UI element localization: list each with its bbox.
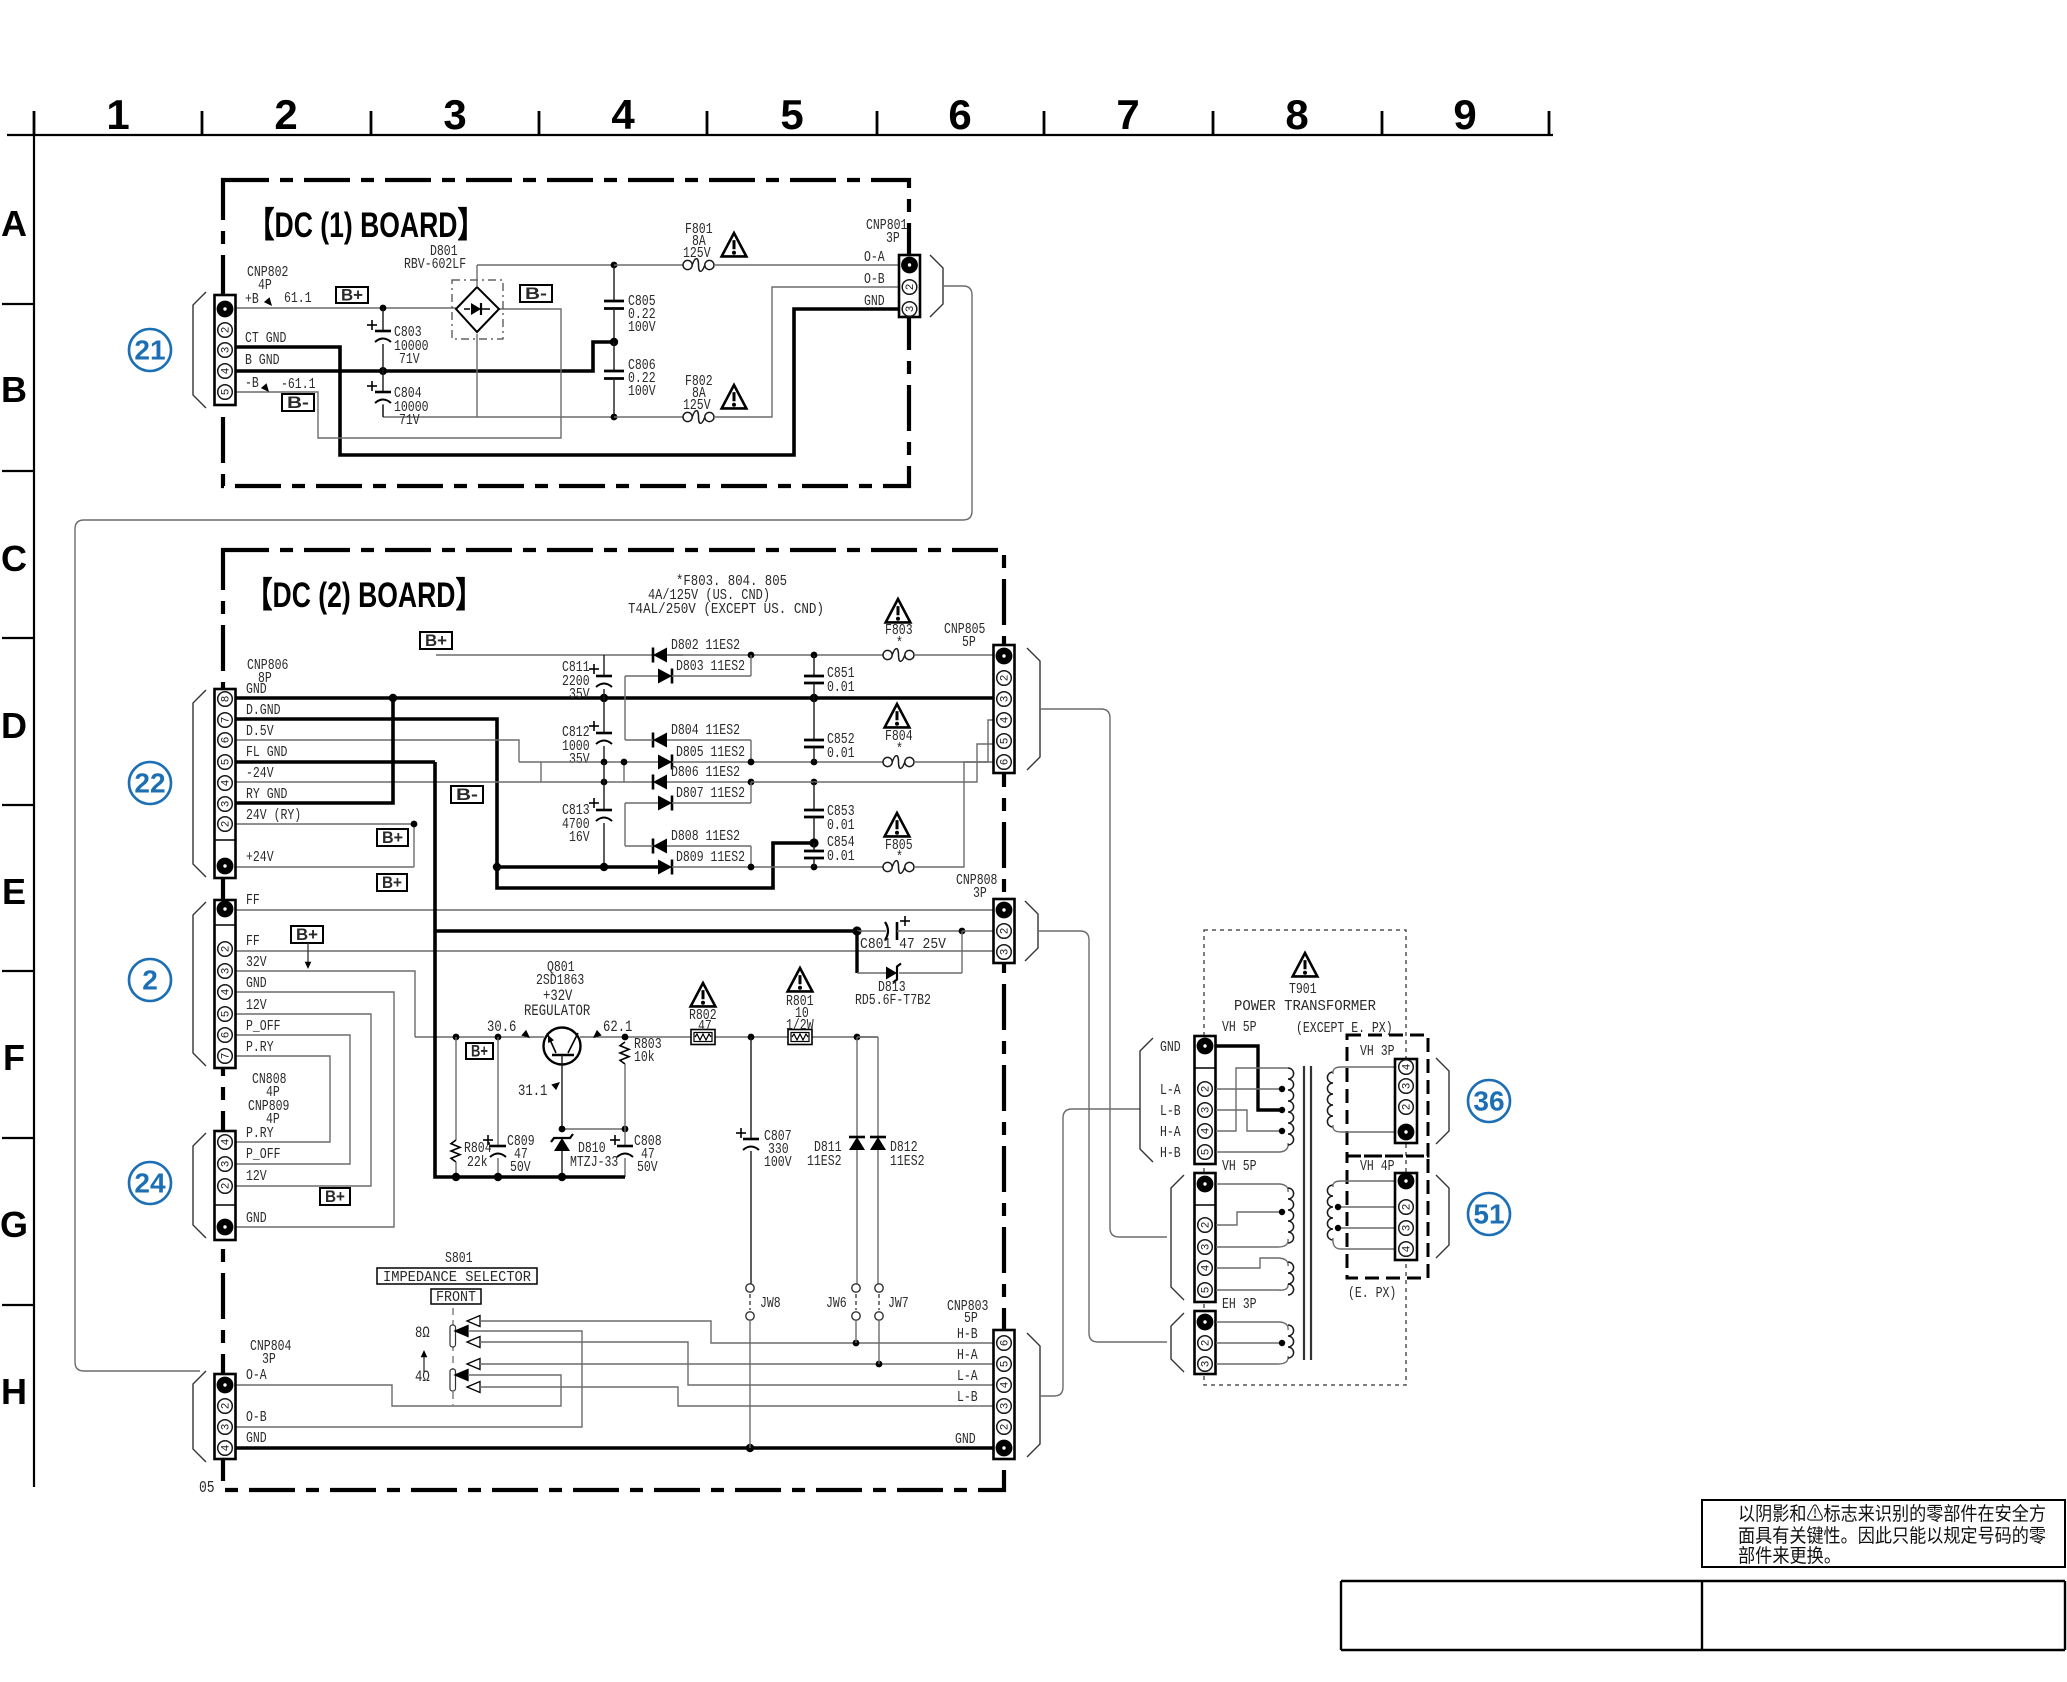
svg-text:2: 2 <box>1000 1424 1012 1431</box>
warning triangle F804 <box>885 704 910 727</box>
connector EH3P <box>1195 1311 1216 1374</box>
svg-text:*: * <box>896 849 903 866</box>
wire 24V (RY) <box>236 824 414 867</box>
svg-text:B GND: B GND <box>245 352 280 369</box>
junction B- rail <box>493 863 501 871</box>
wire GND bottom bus <box>236 1446 994 1450</box>
svg-text:2: 2 <box>221 1183 233 1190</box>
svg-text:P.RY: P.RY <box>246 1039 274 1056</box>
capacitor C804 <box>367 371 429 429</box>
diode D803 <box>625 655 751 740</box>
svg-text:B+: B+ <box>341 286 363 305</box>
brace CNP803 <box>1027 1333 1040 1457</box>
capacitor C805 <box>604 265 656 342</box>
svg-text:50V: 50V <box>510 1159 531 1176</box>
svg-text:125V: 125V <box>683 245 711 262</box>
wire CNP801 to CNP804 route <box>75 286 972 1371</box>
connector CNP808 <box>994 899 1015 963</box>
row ruler <box>0 135 34 1487</box>
svg-text:E: E <box>2 871 26 912</box>
svg-text:C: C <box>1 538 27 579</box>
svg-text:H-B: H-B <box>1160 1145 1181 1162</box>
contact H-B (top) <box>467 1316 994 1344</box>
svg-text:4: 4 <box>611 91 635 138</box>
svg-text:6: 6 <box>1000 759 1012 766</box>
junction C801 left <box>852 926 861 935</box>
svg-text:3: 3 <box>1000 1403 1012 1410</box>
brace VH4P <box>1436 1175 1449 1258</box>
brace CNP805 <box>1027 648 1040 770</box>
title block table <box>1341 1581 2065 1650</box>
wire CNP803 to VH5P-1 <box>1040 1109 1140 1396</box>
svg-text:61.1: 61.1 <box>284 290 312 307</box>
column ruler <box>7 91 1553 138</box>
contact H-A (upper 4ohm) <box>467 1359 994 1370</box>
svg-text:-24V: -24V <box>246 765 274 782</box>
junction rail/R803 <box>622 1034 629 1041</box>
svg-text:D: D <box>1 705 27 746</box>
primary winding upper <box>1288 1068 1294 1145</box>
warning triangle F805 <box>885 813 910 836</box>
wire VH4P pin4 <box>1333 1238 1395 1249</box>
svg-text:VH 3P: VH 3P <box>1360 1043 1395 1060</box>
connector CNP809 lower <box>215 1131 236 1240</box>
svg-text:D808 11ES2: D808 11ES2 <box>671 828 740 845</box>
svg-text:11ES2: 11ES2 <box>807 1153 842 1170</box>
wire VH4P pin2 tap <box>1337 1206 1395 1208</box>
svg-text:125V: 125V <box>683 397 711 414</box>
wire secondary top to pin4 <box>1333 1067 1395 1074</box>
svg-text:36: 36 <box>1473 1086 1504 1117</box>
wire VH5P-2 pin1 <box>1216 1184 1288 1192</box>
junction D802/D803 <box>748 652 755 659</box>
junction GND/C851 <box>810 694 818 702</box>
svg-text:VH 5P: VH 5P <box>1222 1158 1257 1175</box>
svg-text:3P: 3P <box>886 230 900 247</box>
svg-text:2: 2 <box>142 965 158 996</box>
voltage 31.1 <box>518 1082 560 1100</box>
diode D805 <box>658 744 883 770</box>
wire D.GND <box>236 719 810 888</box>
contact 8ohm common <box>236 1326 582 1428</box>
brace CNP806 <box>193 690 206 877</box>
ref 22 <box>129 762 171 804</box>
resistor R804 <box>451 1037 492 1177</box>
switch S801 labels <box>377 1250 537 1306</box>
wire row782 to pin5 <box>751 744 994 782</box>
svg-text:C801 47 25V: C801 47 25V <box>860 936 946 953</box>
svg-text:2: 2 <box>1000 675 1012 682</box>
svg-text:4: 4 <box>1201 1264 1213 1271</box>
transistor Q801 <box>524 959 590 1065</box>
capacitor C801 <box>857 916 962 953</box>
svg-text:D804 11ES2: D804 11ES2 <box>671 722 740 739</box>
wire GND to primary <box>1216 1046 1281 1110</box>
ref 51 <box>1468 1193 1510 1235</box>
zener D810 <box>551 1134 618 1177</box>
label CNP802 <box>245 264 288 392</box>
junction primary L-A tap <box>1279 1086 1285 1092</box>
capacitor C813 <box>562 762 612 867</box>
brace EH3P <box>1171 1313 1184 1372</box>
svg-text:05: 05 <box>199 1479 215 1498</box>
svg-text:L-B: L-B <box>957 1389 978 1406</box>
svg-text:2: 2 <box>1402 1204 1414 1211</box>
svg-text:RD5.6F-T7B2: RD5.6F-T7B2 <box>855 992 931 1009</box>
wire D802 row to fuse <box>667 654 883 656</box>
svg-text:部件来更换。: 部件来更换。 <box>1738 1545 1841 1567</box>
svg-text:71V: 71V <box>399 412 420 429</box>
wire VH5P-2 pin2 tap <box>1216 1212 1282 1225</box>
svg-text:6: 6 <box>948 91 971 138</box>
svg-text:8: 8 <box>221 696 233 703</box>
svg-text:16V: 16V <box>569 829 590 846</box>
junction row762/D806 tie <box>621 759 628 766</box>
svg-text:CT GND: CT GND <box>245 330 286 347</box>
contact L-B (bottom) <box>467 1382 994 1407</box>
svg-text:8Ω: 8Ω <box>415 1324 430 1342</box>
svg-text:5P: 5P <box>964 1310 978 1327</box>
label B+ top rail <box>420 631 452 650</box>
junction row762/D804 <box>748 759 755 766</box>
connector CNP803 <box>994 1330 1015 1459</box>
fuse F803 <box>883 622 994 661</box>
svg-text:以阴影和⚠标志来识别的零部件在安全方: 以阴影和⚠标志来识别的零部件在安全方 <box>1738 1503 2046 1525</box>
svg-text:62.1: 62.1 <box>603 1018 632 1036</box>
warning triangle F802 <box>722 385 747 408</box>
svg-text:1/2W: 1/2W <box>786 1017 814 1034</box>
wire GND nested <box>236 992 394 1227</box>
voltage 61.1 <box>264 290 312 307</box>
wire Q801 base <box>562 1055 625 1129</box>
svg-text:RBV-602LF: RBV-602LF <box>404 256 466 273</box>
label B+ (DC1) <box>336 286 368 305</box>
diode D812 <box>857 1037 925 1286</box>
svg-text:D807 11ES2: D807 11ES2 <box>676 785 745 802</box>
brace CNP804 <box>193 1371 206 1462</box>
label T901 <box>1234 981 1393 1037</box>
svg-text:H-A: H-A <box>957 1347 978 1364</box>
svg-text:B-: B- <box>525 284 547 303</box>
ref 36 <box>1468 1080 1510 1122</box>
svg-text:2: 2 <box>274 91 297 138</box>
svg-text:32V: 32V <box>246 954 267 971</box>
svg-text:-B: -B <box>245 375 259 392</box>
svg-text:3: 3 <box>221 1161 233 1168</box>
fuse F801 <box>614 221 899 271</box>
wire 12V nested <box>236 1014 371 1186</box>
brace CNP809 upper <box>193 902 206 1066</box>
junction rail/R804 bottom <box>452 1173 460 1181</box>
svg-text:2: 2 <box>221 327 233 334</box>
safety note box <box>1702 1500 2065 1567</box>
junction GND/C811-C812 <box>600 694 608 702</box>
capacitor C852 <box>804 698 855 762</box>
wire -24V row (782) <box>541 781 751 783</box>
DC (1) board border <box>223 180 909 486</box>
jumper JW6 <box>826 1284 860 1343</box>
svg-text:P_OFF: P_OFF <box>246 1018 281 1035</box>
svg-text:GND: GND <box>246 681 267 698</box>
svg-text:EH 3P: EH 3P <box>1222 1296 1257 1313</box>
junction C801 right <box>959 928 966 935</box>
diode D806 <box>653 764 740 790</box>
zener D813 <box>855 931 962 1009</box>
junction row762/C812 <box>601 759 608 766</box>
voltage 30.6 <box>487 1018 530 1038</box>
svg-text:2: 2 <box>221 821 233 828</box>
svg-text:T4AL/250V (EXCEPT US. CND): T4AL/250V (EXCEPT US. CND) <box>628 601 824 618</box>
wire B+ rail (row 655) <box>436 654 683 656</box>
label CNP805 <box>944 621 985 651</box>
wire P_OFF nested <box>236 1035 350 1164</box>
junction 24V(RY) <box>411 821 418 828</box>
bridge rectifier D801 <box>404 243 503 339</box>
svg-text:4: 4 <box>221 1444 233 1451</box>
wire CNP805 to VH5P-2 <box>1040 709 1167 1237</box>
junction rail/C807 <box>748 1034 755 1041</box>
svg-text:2: 2 <box>1402 1104 1414 1111</box>
wire B- bottom <box>383 334 614 417</box>
wire -B <box>236 309 561 438</box>
connector VH4P <box>1395 1173 1417 1260</box>
junction B GND/C805-C806 <box>610 338 618 346</box>
svg-text:100V: 100V <box>628 383 656 400</box>
wire C801 to CNP808 <box>962 930 994 932</box>
wire FL GND <box>236 760 435 764</box>
ref 2 <box>129 959 171 1001</box>
svg-text:24V (RY): 24V (RY) <box>246 807 301 824</box>
svg-text:2: 2 <box>1201 1340 1213 1347</box>
capacitor C803 <box>367 308 429 371</box>
warning triangle R802 <box>691 983 716 1006</box>
svg-text:2: 2 <box>1000 928 1012 935</box>
junction rail/D810 bottom <box>558 1173 566 1181</box>
connector CNP809 upper <box>215 900 236 1068</box>
wire B GND <box>236 342 612 371</box>
label B- near CNP802 <box>282 393 314 412</box>
svg-text:100V: 100V <box>628 319 656 336</box>
junction winding2 tap <box>1279 1209 1285 1215</box>
svg-text:L-A: L-A <box>957 1368 978 1385</box>
svg-text:GND: GND <box>246 1430 267 1447</box>
svg-text:GND: GND <box>864 293 885 310</box>
svg-text:4: 4 <box>221 779 233 786</box>
wire CNP808 to EH3P <box>1038 931 1167 1342</box>
capacitor C807 <box>736 1037 792 1286</box>
svg-text:3: 3 <box>221 968 233 975</box>
junction row867/C854 <box>811 864 818 871</box>
junction GND/RY GND <box>389 694 397 702</box>
svg-text:F: F <box>3 1037 25 1078</box>
capacitor C808 <box>610 1129 662 1177</box>
svg-text:G: G <box>0 1204 28 1245</box>
junction B GND/C803-C804 <box>379 367 387 375</box>
label CNP804 <box>246 1338 291 1447</box>
junction C853/C854 B- feed <box>809 838 818 847</box>
junction sec tap 1 <box>1335 1204 1341 1210</box>
svg-text:【DC (1) BOARD】: 【DC (1) BOARD】 <box>248 206 484 245</box>
svg-text:51: 51 <box>1473 1199 1504 1230</box>
svg-text:9: 9 <box>1453 91 1476 138</box>
svg-text:【DC (2) BOARD】: 【DC (2) BOARD】 <box>246 576 482 615</box>
svg-text:D.GND: D.GND <box>246 702 281 719</box>
svg-text:3: 3 <box>1201 1361 1213 1368</box>
capacitor C851 <box>804 655 855 698</box>
junction C806 bottom <box>611 414 618 421</box>
wire L-B jog <box>0 0 1 1</box>
wire secondary bottom to pin1 <box>1333 1125 1395 1132</box>
junction primary GND tap <box>1279 1107 1285 1113</box>
svg-text:31.1: 31.1 <box>518 1082 547 1100</box>
label B+ below 24V <box>377 873 407 892</box>
junction row782/C853 <box>811 779 818 786</box>
svg-text:FF: FF <box>246 892 260 909</box>
wire L-B tap <box>1216 1110 1282 1131</box>
svg-text:21: 21 <box>134 335 165 366</box>
contact 4ohm common <box>236 1370 561 1407</box>
svg-text:8: 8 <box>1285 91 1308 138</box>
svg-text:B-: B- <box>287 393 309 412</box>
junction row762/C852 <box>811 759 818 766</box>
wire 32V rail <box>415 1036 878 1038</box>
svg-text:P.RY: P.RY <box>246 1125 274 1142</box>
svg-text:0.01: 0.01 <box>827 745 855 762</box>
switch pole bar lower <box>450 1369 456 1391</box>
svg-text:3: 3 <box>1000 949 1012 956</box>
wire FL GND to C801 <box>435 929 857 933</box>
jumper JW7 <box>875 1284 909 1364</box>
svg-text:35V: 35V <box>569 686 590 703</box>
junction row782/C813 <box>601 779 608 786</box>
svg-text:GND: GND <box>246 975 267 992</box>
svg-text:JW7: JW7 <box>888 1295 909 1312</box>
svg-text:FRONT: FRONT <box>436 1289 476 1306</box>
junction D808/D809 <box>748 864 755 871</box>
capacitor C809 <box>483 1037 535 1177</box>
ref 24 <box>129 1162 171 1204</box>
svg-text:GND: GND <box>1160 1039 1181 1056</box>
warning triangle R801 <box>788 968 813 991</box>
wire +24V <box>236 866 414 868</box>
svg-text:RY GND: RY GND <box>246 786 287 803</box>
svg-text:71V: 71V <box>399 351 420 368</box>
resistor R803 <box>620 1036 662 1129</box>
svg-text:*: * <box>896 635 903 652</box>
wire VH5P-2 pin5 <box>1216 1284 1288 1290</box>
label CNP806 <box>246 657 301 866</box>
brace VH3P <box>1436 1058 1449 1144</box>
svg-text:3: 3 <box>905 306 917 313</box>
wire FF 2 <box>236 950 994 952</box>
svg-text:6: 6 <box>1000 1340 1012 1347</box>
svg-text:B+: B+ <box>296 925 318 944</box>
wire 32V <box>236 971 415 1037</box>
fuse F804 <box>883 720 994 768</box>
svg-text:6: 6 <box>221 1032 233 1039</box>
svg-text:4Ω: 4Ω <box>415 1368 430 1386</box>
connector VH3P <box>1395 1059 1417 1143</box>
svg-text:47: 47 <box>698 1018 712 1035</box>
svg-text:D802 11ES2: D802 11ES2 <box>671 637 740 654</box>
secondary box VH3P except E PX <box>1347 1035 1428 1156</box>
brace CNP809 lower <box>193 1133 206 1238</box>
winding 2 upper <box>1288 1188 1294 1243</box>
resistor R802 <box>689 1007 717 1045</box>
capacitor C854 <box>804 834 855 867</box>
svg-text:35V: 35V <box>569 751 590 768</box>
label B+ lower <box>320 1187 350 1206</box>
connector VH5P-1 <box>1195 1036 1216 1164</box>
junction sec tap 2 <box>1335 1225 1341 1231</box>
svg-text:3: 3 <box>221 1424 233 1431</box>
svg-text:D809 11ES2: D809 11ES2 <box>676 849 745 866</box>
svg-text:GND: GND <box>955 1431 976 1448</box>
svg-text:5: 5 <box>1201 1287 1213 1294</box>
svg-text:IMPEDANCE SELECTOR: IMPEDANCE SELECTOR <box>383 1269 531 1286</box>
voltage -61.1 <box>261 376 316 393</box>
brace VH5P-2 <box>1171 1175 1184 1300</box>
capacitor C811 <box>562 655 612 703</box>
junction JW8/GND <box>746 1444 754 1452</box>
svg-text:VH 4P: VH 4P <box>1360 1158 1395 1175</box>
svg-text:30.6: 30.6 <box>487 1018 516 1036</box>
svg-text:(E. PX): (E. PX) <box>1348 1285 1396 1302</box>
junction +B/C803 <box>380 305 387 312</box>
wire FF 1 <box>236 909 994 911</box>
DC (2) board title <box>246 576 482 615</box>
svg-text:JW6: JW6 <box>826 1295 847 1312</box>
label FF rows <box>246 892 281 1056</box>
svg-text:4: 4 <box>1402 1063 1414 1070</box>
svg-text:D803 11ES2: D803 11ES2 <box>676 658 745 675</box>
svg-text:3: 3 <box>1201 1244 1213 1251</box>
svg-text:1: 1 <box>106 91 129 138</box>
svg-text:H-A: H-A <box>1160 1124 1181 1141</box>
label B- near bridge <box>520 284 552 303</box>
capacitor C812 <box>562 698 612 768</box>
svg-text:5: 5 <box>221 1011 233 1018</box>
junction C813/B- <box>600 863 608 871</box>
svg-text:2: 2 <box>1201 1086 1213 1093</box>
wire CT GND <box>236 309 899 455</box>
transformer core <box>1304 1066 1311 1360</box>
wire VH5P-2 pin3 <box>1216 1239 1288 1247</box>
svg-text:12V: 12V <box>246 997 267 1014</box>
wire B- regulator rail <box>435 762 625 1177</box>
junction primary H-A tap <box>1279 1128 1285 1134</box>
junction JW6/H-B <box>853 1340 860 1347</box>
brace CNP802 <box>193 292 206 408</box>
svg-text:11ES2: 11ES2 <box>890 1153 925 1170</box>
svg-text:面具有关键性。因此只能以规定号码的零: 面具有关键性。因此只能以规定号码的零 <box>1738 1525 2046 1547</box>
svg-text:3: 3 <box>221 347 233 354</box>
svg-text:4: 4 <box>1402 1245 1414 1252</box>
junction rail/D811 <box>854 1034 861 1041</box>
brace CNP801 <box>930 255 943 317</box>
label CNP808 <box>956 872 997 902</box>
wire EH3P pin3 <box>1216 1356 1288 1364</box>
svg-text:*: * <box>896 741 903 758</box>
wire H-B tap <box>1216 1143 1288 1152</box>
svg-text:MTZJ-33: MTZJ-33 <box>570 1154 618 1171</box>
connector CNP806 <box>215 689 236 878</box>
svg-text:2: 2 <box>221 946 233 953</box>
svg-text:D806 11ES2: D806 11ES2 <box>671 764 740 781</box>
winding 2 lower <box>1288 1262 1294 1295</box>
label B- (DC2) <box>451 785 483 804</box>
junction rail/C809 <box>495 1034 502 1041</box>
